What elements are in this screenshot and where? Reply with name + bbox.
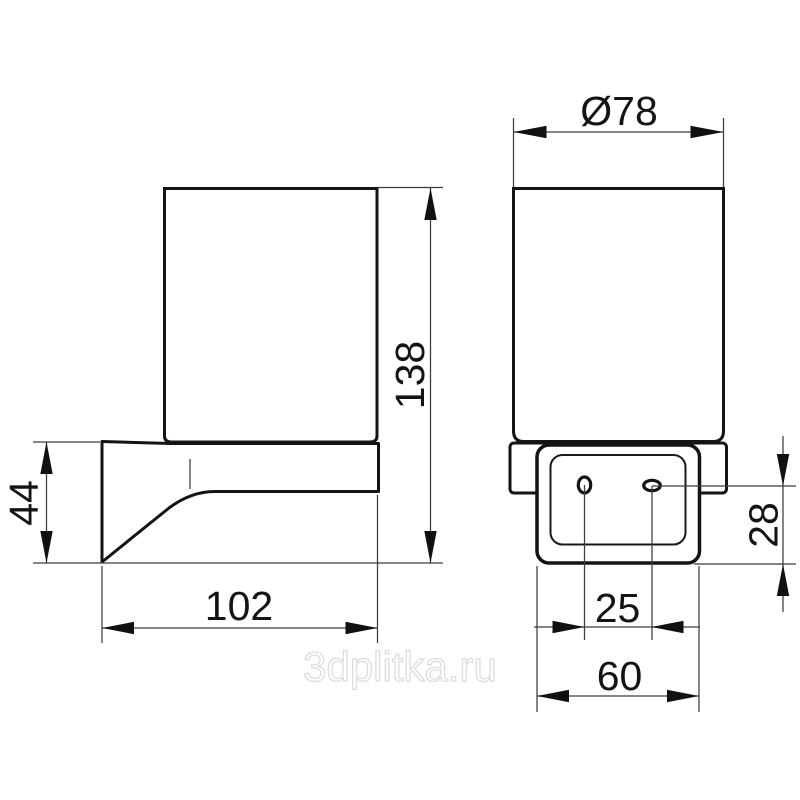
bracket side view [102,442,379,563]
left mounting hole [578,477,590,493]
dim 28 leader line top [652,485,796,487]
holder band front view [510,443,727,493]
svg-text:102: 102 [205,583,273,629]
leader line from right hole [651,486,653,640]
svg-text:3dplitka.ru: 3dplitka.ru [303,643,497,690]
dim 44 arrow bottom [40,531,52,563]
dim 25 arrow right [652,621,684,633]
dim 28 line [782,436,784,612]
dim 78 extension line right [723,118,725,187]
bracket front view inner [551,455,686,545]
dim 28 arrow top [777,454,789,486]
svg-text:60: 60 [597,653,643,699]
dim 138 extension line top [378,187,443,189]
dim 28 arrow bottom [777,564,789,596]
dim 102 line [102,627,378,629]
svg-text:Ø78: Ø78 [580,88,658,134]
dim 44 extension line top [33,441,100,443]
dim 102 extension line left [101,566,103,643]
svg-text:25: 25 [595,585,641,631]
right mounting hole [644,480,661,490]
svg-text:44: 44 [1,480,47,526]
shared bottom extension line (44 and 138) [33,562,443,564]
glass side view [165,189,378,443]
dim 102 arrow left [102,622,134,634]
svg-text:138: 138 [387,341,433,409]
dim 138 arrow bottom [424,531,436,563]
dim 25 line [534,626,700,628]
dim 78 arrow left [514,126,547,138]
dim 138 line [430,188,432,563]
dim 44 line [46,442,48,563]
dim 44 arrow top [40,442,52,474]
dim 60 arrow left [537,690,569,702]
dim 78 line [514,131,724,133]
dim 138 arrow top [424,188,436,220]
bracket front view outer [537,445,700,563]
dim 102 extension line right [377,495,379,643]
svg-text:28: 28 [741,502,787,548]
dim 60 arrow right [667,690,699,702]
dim 78 arrow right [691,126,724,138]
glass front view [514,189,724,442]
dim 60 extension line right [698,566,700,712]
tick mark on bracket [189,459,191,489]
dim 78 extension line left [513,118,515,187]
dim 28 extension line bottom [694,563,796,565]
dim 25 arrow left [553,621,585,633]
leader line from left hole [584,485,586,640]
dim 102 arrow right [346,622,378,634]
dim 60 line [537,695,699,697]
dim 60 extension line left [536,566,538,712]
